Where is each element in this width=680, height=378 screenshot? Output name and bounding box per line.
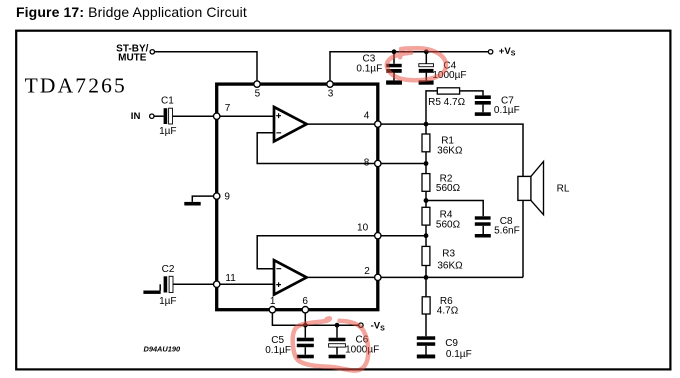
pin 6 [302,307,308,313]
svg-text:C9: C9 [445,338,458,349]
terminal ST-BY/MUTE [150,50,154,54]
wire C5 lead [304,325,306,338]
red annotation circle around C4 [387,48,446,80]
wire R1 leads [425,124,427,163]
wire pin 1 to -Vs rail [272,313,358,325]
wire R2 leads [425,164,427,201]
svg-text:9: 9 [224,191,230,202]
svg-text:3: 3 [328,89,334,100]
capacitor C8 5.6nF [475,216,520,237]
svg-text:0.1µF: 0.1µF [356,63,382,74]
capacitor C6 1000µF (electrolytic) [329,334,380,358]
capacitor C3 0.1µF [356,53,402,84]
wire C2 to pin 11 [173,283,214,285]
svg-text:0.1µF: 0.1µF [446,349,472,360]
terminal -Vs [359,323,363,327]
svg-text:1: 1 [270,296,276,307]
pin 10 [375,233,381,239]
junction R3/R6 on pin 2 line [424,275,429,280]
wire IN to C1 [154,115,164,117]
resistor R2 560Ω [422,173,461,194]
wire pin 6 down to rail [304,313,306,325]
svg-text:5.6nF: 5.6nF [494,226,520,237]
svg-text:11: 11 [225,273,236,284]
wire op-amp U1A output to pin 4 [306,123,375,125]
wire R4 leads [425,201,427,236]
capacitor C7 0.1µF [475,95,520,116]
junction R1/R2 on pin 8 line [424,161,429,166]
junction R5/R1 on pin 4 line [424,122,429,127]
pin 4 [375,121,381,127]
wire R5 branch [426,91,437,124]
svg-text:Figure 17: Bridge Application: Figure 17: Bridge Application Circuit [16,4,247,20]
svg-text:1µF: 1µF [159,126,176,137]
wire node to C8 [426,201,483,217]
wire C4 lower lead [425,73,427,81]
IC body TDA7265 [217,84,378,310]
svg-text:R5 4.7Ω: R5 4.7Ω [428,97,465,108]
wire pin 2 to speaker bottom [381,200,523,277]
capacitor C4 1000µF (electrolytic) [419,60,467,84]
svg-text:6: 6 [302,296,308,307]
wire C1 to pin 7 [173,115,214,117]
svg-text:C2: C2 [162,264,175,275]
terminal circles [150,50,493,328]
resistor R5 4.7Ω [428,88,465,108]
svg-text:D94AU190: D94AU190 [144,344,181,353]
capacitor C2 1µF [159,264,176,307]
wire op-amp U1A feedback to pin 8 [257,133,374,164]
pin 2 [375,274,381,280]
wire C9 lead to ground bar [425,346,427,355]
speaker RL [518,162,570,215]
wire R5 to C7 [460,91,483,96]
pin circles [214,81,381,313]
wire R6 leads [425,277,427,336]
svg-text:0.1µF: 0.1µF [265,345,291,356]
resistor R1 36KΩ [422,134,463,156]
junction C3 on +Vs rail [392,49,397,54]
wire ST-BY/MUTE to pin 5 [155,52,258,81]
svg-text:1000µF: 1000µF [345,344,379,355]
resistor R6 4.7Ω [422,296,459,317]
junction C4 on +Vs rail [424,49,429,54]
svg-text:36KΩ: 36KΩ [437,145,463,156]
wire pin 7 to op-amp U1A + input [220,115,273,117]
wire pin 9 to ground [192,196,213,202]
resistor R4 560Ω [422,207,461,230]
op-amp U1A [274,107,307,141]
wire C3 lead [393,52,395,64]
wire pin 11 to op-amp U1B + input [220,283,273,285]
svg-text:560Ω: 560Ω [436,219,461,230]
svg-text:TDA7265: TDA7265 [25,74,125,98]
pin 1 [269,307,275,313]
svg-text:IN: IN [131,111,141,122]
svg-text:8: 8 [364,158,370,169]
svg-text:MUTE: MUTE [118,52,147,63]
capacitor C9 0.1µF [417,336,472,360]
wire op-amp U1B feedback to pin 10 [257,236,374,269]
capacitor C1 1µF [159,96,176,138]
wire C6 lead [336,325,338,338]
wire C3 lower lead [393,73,395,81]
junction C5 on -Vs rail [303,323,308,328]
op-amp U1B [274,260,307,294]
wire C8 lead to ground bar [482,226,484,234]
svg-text:10: 10 [357,222,369,233]
wire C6 lead to ground bar [336,347,338,355]
pin 8 [375,160,381,166]
wire R3 leads [425,236,427,278]
svg-text:4.7Ω: 4.7Ω [437,306,459,317]
wire C5 lead to ground bar [304,347,306,355]
svg-text:5: 5 [255,89,261,100]
pin 5 [254,81,260,87]
wire C7 lead to ground bar [482,105,484,113]
svg-text:7: 7 [225,103,231,114]
wire C4 lead [425,52,427,64]
terminal IN [150,114,154,118]
terminal +Vs [488,50,492,54]
svg-text:C1: C1 [161,96,174,107]
wire pin 10 to R4/R3 node [381,235,426,237]
svg-text:2: 2 [364,266,370,277]
svg-text:560Ω: 560Ω [436,183,461,194]
pin 7 [214,113,220,119]
junction R4/R3 on pin 10 line [424,233,429,238]
junction R2/R4/C8 [424,198,429,203]
svg-text:RL: RL [557,183,570,194]
svg-text:36KΩ: 36KΩ [437,261,463,272]
wire pin 8 to R1/R2 node [381,163,426,165]
wire pin 3 up to +Vs rail [330,52,488,81]
pin 9 [214,193,220,199]
capacitor C5 0.1µF [265,335,314,359]
junction C6 on -Vs rail [335,323,340,328]
wire C2 ground step [159,284,161,290]
pin 11 [214,281,220,287]
svg-text:4: 4 [364,111,370,122]
wire op-amp U1B output to pin 2 [306,276,375,278]
red annotation loop around C5 C6 [293,318,369,370]
ground bar at C2 [143,291,160,294]
resistor R3 36KΩ [422,246,463,271]
svg-text:R3: R3 [442,248,455,259]
svg-text:0.1µF: 0.1µF [494,105,520,116]
svg-text:1µF: 1µF [159,296,176,307]
ground bar at pin 9 [184,202,200,206]
wire pin 4 to speaker top [381,124,523,176]
pin 3 [327,81,333,87]
